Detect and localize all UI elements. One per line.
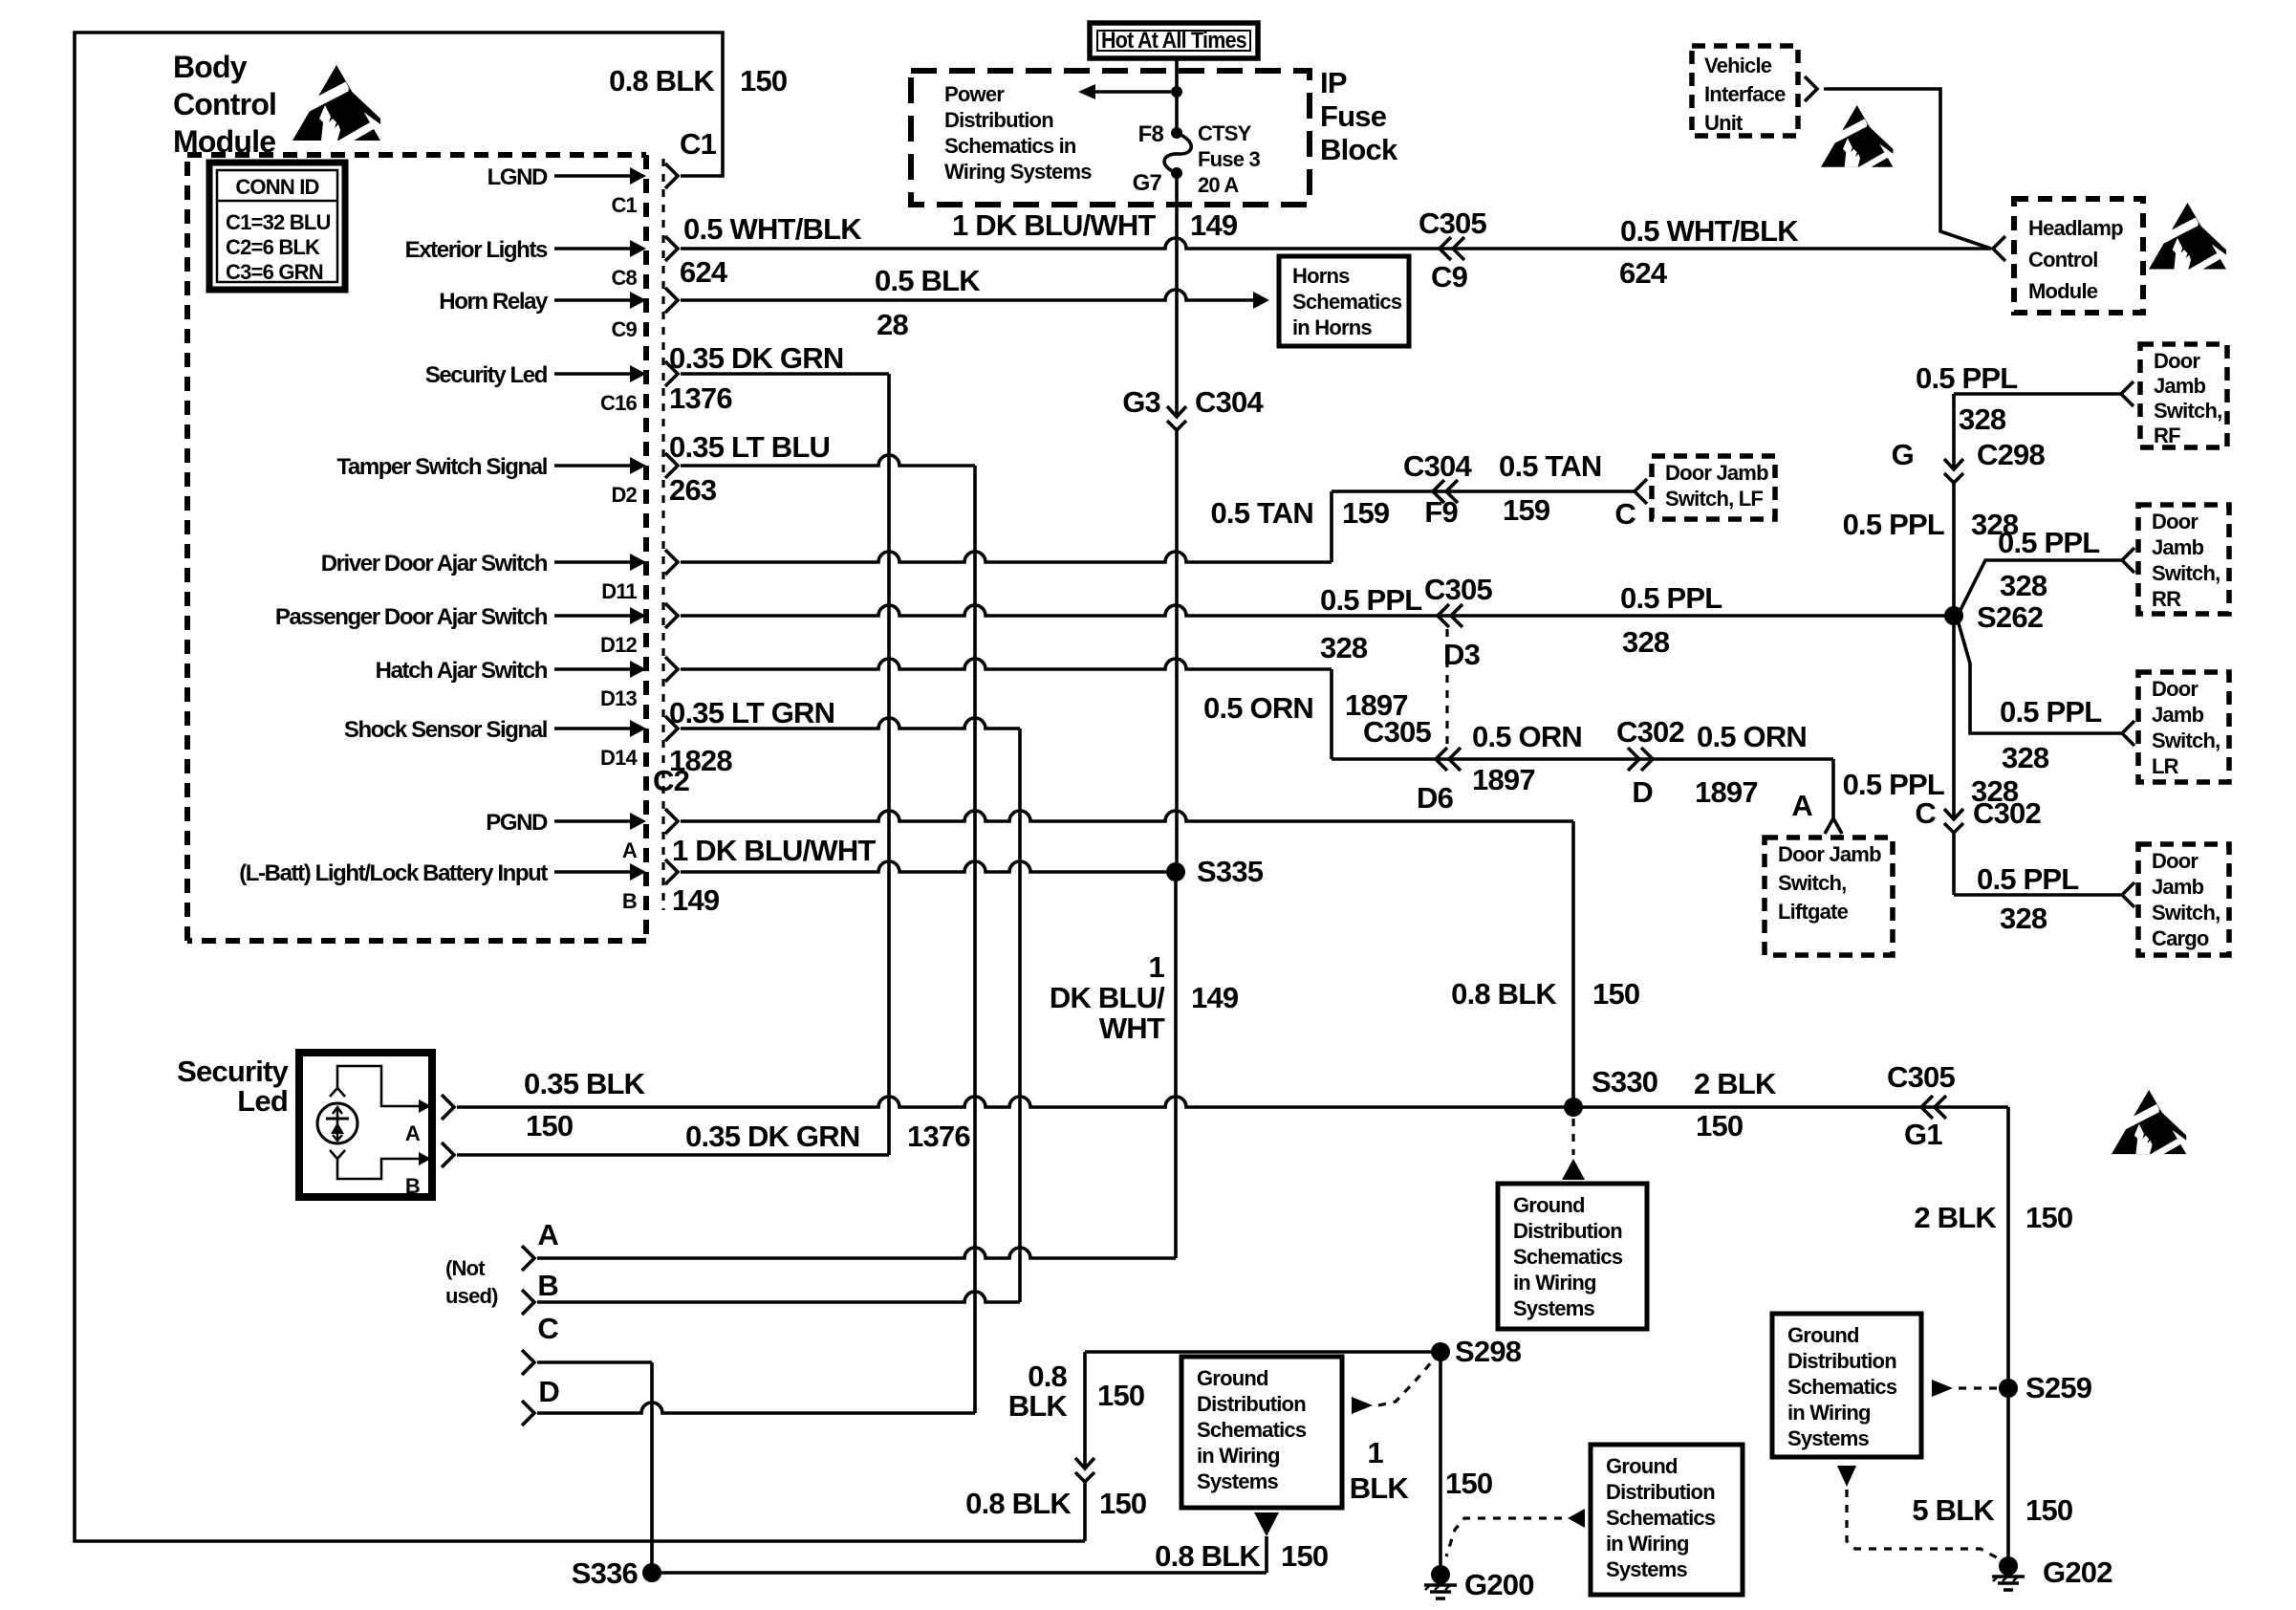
Ground Distribution box (S259)	[1772, 1314, 1921, 1457]
svg-text:2 BLK: 2 BLK	[1694, 1067, 1777, 1100]
ground G200	[1424, 1565, 1457, 1599]
svg-text:PGND: PGND	[486, 810, 548, 836]
svg-text:Shock Sensor Signal: Shock Sensor Signal	[344, 717, 547, 743]
svg-text:C1: C1	[611, 193, 637, 217]
svg-text:Power: Power	[944, 82, 1005, 106]
svg-text:Liftgate: Liftgate	[1778, 900, 1849, 924]
svg-text:C304: C304	[1195, 385, 1264, 419]
svg-text:20 A: 20 A	[1198, 173, 1239, 197]
svg-text:(L-Batt) Light/Lock Battery In: (L-Batt) Light/Lock Battery Input	[239, 860, 548, 886]
svg-text:Switch,: Switch,	[1778, 871, 1846, 895]
svg-text:DK BLU/: DK BLU/	[1050, 981, 1165, 1014]
svg-text:A: A	[622, 838, 638, 862]
IP Fuse Block dashed box	[911, 71, 1310, 205]
svg-text:Security Led: Security Led	[425, 362, 548, 388]
svg-text:Body: Body	[173, 50, 248, 84]
svg-text:0.35 LT GRN: 0.35 LT GRN	[669, 696, 834, 729]
svg-text:WHT: WHT	[1099, 1012, 1165, 1045]
svg-text:0.8 BLK: 0.8 BLK	[1155, 1539, 1261, 1573]
connector C305 D6	[1436, 748, 1447, 771]
connector C305 G1	[1921, 1096, 1933, 1119]
svg-text:Switch,: Switch,	[2152, 561, 2220, 585]
svg-text:BLK: BLK	[1350, 1471, 1410, 1505]
svg-text:Jamb: Jamb	[2154, 374, 2206, 398]
svg-text:0.5 PPL: 0.5 PPL	[1320, 583, 1421, 617]
svg-text:159: 159	[1503, 493, 1550, 527]
svg-text:C302: C302	[1973, 796, 2041, 830]
svg-text:B: B	[405, 1174, 420, 1198]
svg-text:C: C	[1614, 497, 1635, 531]
svg-text:G202: G202	[2043, 1556, 2112, 1589]
svg-text:1376: 1376	[669, 381, 732, 415]
svg-text:Security: Security	[177, 1055, 289, 1088]
Door Jamb Switch Cargo	[2138, 844, 2229, 955]
svg-text:Switch,: Switch,	[2154, 399, 2221, 423]
svg-text:Passenger Door Ajar Switch: Passenger Door Ajar Switch	[275, 604, 548, 630]
svg-text:Hot At All Times: Hot At All Times	[1101, 28, 1246, 54]
wire 0.5 TAN 159 Driver Door Ajar Switch to Door Jamb Switch LF	[681, 552, 1332, 562]
svg-text:S335: S335	[1197, 855, 1264, 888]
Headlamp Control Module	[2014, 199, 2143, 313]
svg-text:CONN ID: CONN ID	[235, 175, 318, 199]
splice S259	[1999, 1379, 2018, 1398]
wire 0.5 PPL 328 Passenger Door Ajar Switch to S262	[681, 605, 1947, 616]
svg-text:F9: F9	[1424, 495, 1458, 529]
LED symbol	[317, 1103, 357, 1143]
svg-text:D6: D6	[1417, 781, 1454, 815]
svg-text:D11: D11	[601, 579, 637, 603]
svg-text:Systems: Systems	[1513, 1296, 1594, 1320]
svg-text:C9: C9	[611, 317, 637, 341]
wire 1 DK BLU/WHT 149 Light/Lock Battery Input to S335	[681, 861, 1176, 872]
dashed arrow to S259	[1932, 1380, 1953, 1397]
svg-text:Switch,: Switch,	[2152, 901, 2220, 925]
svg-text:150: 150	[2025, 1201, 2072, 1234]
wire 0.35 BLK 150 Security Led A to S330	[442, 1095, 454, 1120]
Horns Schematics in Horns box	[1279, 256, 1409, 346]
svg-text:C2=6 BLK: C2=6 BLK	[226, 235, 320, 259]
svg-text:Unit: Unit	[1704, 111, 1744, 135]
ESD symbol at Vehicle Interface Unit	[1821, 105, 1896, 173]
svg-text:C: C	[537, 1312, 558, 1345]
svg-text:RF: RF	[2154, 424, 2180, 447]
svg-text:Door Jamb: Door Jamb	[1665, 461, 1768, 485]
svg-text:150: 150	[526, 1109, 573, 1142]
svg-text:624: 624	[680, 255, 728, 289]
svg-text:(Not: (Not	[445, 1256, 486, 1280]
wire 0.5 PPL 328 RR branch	[1960, 560, 2122, 610]
svg-text:S262: S262	[1977, 600, 2043, 634]
svg-text:C9: C9	[1431, 260, 1468, 294]
Ground Distribution box (S298/S336)	[1181, 1357, 1342, 1508]
svg-text:1: 1	[1368, 1436, 1384, 1469]
svg-text:159: 159	[1342, 496, 1390, 530]
LED internal wiring	[330, 1088, 345, 1097]
svg-text:0.5 WHT/BLK: 0.5 WHT/BLK	[683, 212, 862, 246]
svg-text:28: 28	[877, 308, 908, 341]
svg-text:0.35 LT BLU: 0.35 LT BLU	[669, 430, 830, 464]
svg-text:0.5 TAN: 0.5 TAN	[1210, 496, 1313, 530]
ESD symbol at BCM	[292, 65, 384, 147]
wire 0.35 DK GRN 1376 Security Led B	[442, 1142, 454, 1167]
wire 0.8 BLK 150 S336 to ground ref	[652, 1571, 1267, 1575]
wire 2 BLK 150 S330 to C305 G1	[1573, 1105, 2008, 1109]
svg-text:328: 328	[2002, 741, 2049, 774]
svg-text:D13: D13	[600, 686, 638, 710]
wire 0.5 ORN 1897 Hatch Ajar Switch to Door Jamb Switch Liftgate	[681, 659, 1332, 669]
svg-text:0.5 PPL: 0.5 PPL	[1977, 862, 2078, 896]
svg-text:Control: Control	[2028, 248, 2098, 272]
svg-text:RR: RR	[2152, 587, 2181, 611]
svg-text:Block: Block	[1320, 133, 1398, 166]
svg-text:C3=6 GRN: C3=6 GRN	[226, 260, 323, 284]
svg-text:0.5 ORN: 0.5 ORN	[1697, 720, 1807, 753]
svg-text:Horn Relay: Horn Relay	[439, 289, 549, 315]
Door Jamb Switch LF	[1652, 456, 1775, 519]
fuse CTSY Fuse 3 20 A	[1171, 127, 1182, 139]
svg-text:1376: 1376	[907, 1120, 970, 1153]
Security Led component	[299, 1053, 432, 1197]
svg-text:0.35 DK GRN: 0.35 DK GRN	[669, 341, 843, 375]
connector C C302 (in-line, pointing down)	[1944, 809, 1963, 819]
svg-text:G: G	[1892, 438, 1914, 471]
ESD symbol at Headlamp Control Module	[2149, 203, 2229, 275]
connector G C298 (in-line, pointing down)	[1944, 459, 1963, 469]
svg-text:Ground: Ground	[1787, 1323, 1859, 1347]
svg-text:B: B	[537, 1269, 558, 1302]
svg-text:S259: S259	[2025, 1371, 2092, 1404]
Door Jamb Switch RR	[2138, 505, 2229, 614]
svg-text:C298: C298	[1977, 438, 2045, 471]
svg-text:328: 328	[2000, 569, 2047, 602]
svg-text:Interface: Interface	[1704, 82, 1786, 106]
Door Jamb Switch RF	[2140, 344, 2227, 447]
svg-text:C305: C305	[1887, 1060, 1955, 1094]
svg-text:Jamb: Jamb	[2152, 535, 2204, 559]
wire 0.5 BLK 28 Horn Relay to Horns	[681, 290, 1253, 300]
svg-text:1897: 1897	[1695, 775, 1758, 809]
dashed arrow from S259 box to G202	[1837, 1466, 1856, 1487]
wire 1 BLK 150 S298 to G200	[1439, 1352, 1442, 1571]
wire 0.35 DK GRN 1376 from BCM Security Led pin	[681, 372, 889, 376]
svg-text:Door: Door	[2154, 349, 2200, 373]
svg-text:B: B	[622, 889, 637, 913]
CONN ID table	[209, 163, 345, 290]
svg-text:D3: D3	[1443, 638, 1481, 671]
Door Jamb Switch LR	[2138, 672, 2229, 782]
ground G202	[1992, 1556, 2025, 1590]
svg-text:328: 328	[2000, 902, 2047, 935]
svg-text:Distribution: Distribution	[944, 108, 1053, 132]
svg-text:Schematics: Schematics	[1513, 1245, 1623, 1269]
svg-text:Led: Led	[237, 1084, 288, 1118]
svg-text:C302: C302	[1616, 715, 1684, 749]
svg-text:C1=32 BLU: C1=32 BLU	[226, 210, 331, 234]
svg-text:Jamb: Jamb	[2152, 703, 2204, 727]
Ground Distribution box (S330)	[1498, 1184, 1647, 1329]
svg-text:CTSY: CTSY	[1198, 121, 1252, 145]
svg-text:Vehicle: Vehicle	[1704, 54, 1772, 77]
svg-text:149: 149	[672, 883, 720, 917]
svg-text:Module: Module	[173, 124, 275, 159]
svg-text:LGND: LGND	[487, 164, 548, 190]
svg-text:0.35 DK GRN: 0.35 DK GRN	[685, 1120, 859, 1153]
svg-text:Schematics: Schematics	[1606, 1506, 1716, 1530]
svg-text:Systems: Systems	[1197, 1469, 1278, 1493]
svg-text:A: A	[405, 1121, 421, 1145]
svg-text:C16: C16	[600, 391, 638, 415]
svg-text:Distribution: Distribution	[1513, 1219, 1622, 1243]
svg-text:0.8 BLK: 0.8 BLK	[1451, 977, 1557, 1011]
svg-text:G7: G7	[1133, 170, 1162, 196]
connector C304 F9	[1433, 480, 1444, 503]
svg-text:Ground: Ground	[1197, 1366, 1268, 1390]
svg-text:624: 624	[1619, 256, 1668, 290]
svg-text:Tamper Switch Signal: Tamper Switch Signal	[336, 454, 547, 480]
svg-text:C2: C2	[653, 764, 689, 797]
splice S298	[1431, 1342, 1450, 1361]
svg-text:149: 149	[1190, 208, 1238, 242]
svg-text:Schematics: Schematics	[1197, 1418, 1307, 1442]
svg-text:D14: D14	[600, 746, 639, 770]
svg-text:Ground: Ground	[1513, 1193, 1585, 1217]
svg-text:Switch, LF: Switch, LF	[1665, 487, 1763, 511]
svg-text:0.5 BLK: 0.5 BLK	[875, 264, 981, 297]
svg-text:Schematics: Schematics	[1292, 290, 1402, 314]
svg-text:150: 150	[1696, 1109, 1743, 1142]
svg-text:D: D	[1632, 775, 1653, 809]
ESD symbol right middle	[2112, 1090, 2190, 1160]
svg-text:149: 149	[1191, 981, 1239, 1014]
BCM connector dashed line	[661, 159, 664, 910]
svg-text:in Wiring: in Wiring	[1513, 1271, 1596, 1295]
svg-text:0.5 ORN: 0.5 ORN	[1203, 691, 1313, 725]
svg-text:D: D	[538, 1375, 559, 1408]
wire 0.8 BLK 150 PGND to S330	[681, 811, 1573, 821]
svg-text:Systems: Systems	[1606, 1557, 1687, 1581]
connector G1 C304 (in-line, pointing down)	[1075, 1458, 1094, 1469]
svg-text:Horns: Horns	[1292, 264, 1350, 288]
svg-text:Wiring Systems: Wiring Systems	[944, 160, 1092, 184]
svg-text:0.5 PPL: 0.5 PPL	[1843, 508, 1944, 541]
svg-text:Driver Door Ajar Switch: Driver Door Ajar Switch	[321, 551, 548, 577]
svg-text:Jamb: Jamb	[2152, 875, 2204, 899]
svg-text:C305: C305	[1419, 207, 1486, 240]
svg-text:Distribution: Distribution	[1787, 1349, 1896, 1373]
svg-text:G1: G1	[1904, 1118, 1942, 1151]
dashed arrow to S298	[1352, 1397, 1373, 1414]
svg-text:Fuse 3: Fuse 3	[1198, 147, 1260, 171]
wire 0.8 BLK 150 to S298	[1085, 1350, 1434, 1354]
dashed arrow to S330	[1571, 1119, 1574, 1155]
svg-text:Cargo: Cargo	[2152, 926, 2209, 950]
splice S335	[1166, 862, 1185, 881]
svg-text:S330: S330	[1592, 1065, 1657, 1099]
svg-text:150: 150	[1281, 1539, 1328, 1573]
Vehicle Interface Unit	[1692, 46, 1798, 136]
svg-text:0.5 TAN: 0.5 TAN	[1499, 449, 1602, 483]
svg-text:1897: 1897	[1472, 763, 1535, 796]
svg-text:F8: F8	[1138, 121, 1164, 147]
svg-text:in Horns: in Horns	[1292, 315, 1372, 339]
svg-text:0.5 PPL: 0.5 PPL	[1916, 361, 2017, 395]
svg-text:BLK: BLK	[1008, 1389, 1069, 1423]
svg-text:Switch,: Switch,	[2152, 729, 2220, 752]
svg-text:Door: Door	[2152, 849, 2199, 873]
wire 0.35 LT GRN 1828 Shock Sensor Signal	[681, 718, 1020, 729]
svg-text:328: 328	[1959, 402, 2006, 436]
svg-text:5 BLK: 5 BLK	[1912, 1493, 1995, 1527]
svg-text:150: 150	[1445, 1467, 1492, 1500]
svg-text:0.8 BLK: 0.8 BLK	[965, 1487, 1072, 1520]
svg-text:C1: C1	[680, 127, 717, 161]
Ground Distribution box (G200)	[1591, 1445, 1743, 1595]
svg-text:Systems: Systems	[1787, 1426, 1869, 1450]
svg-text:2 BLK: 2 BLK	[1914, 1201, 1997, 1234]
svg-text:Door: Door	[2152, 677, 2199, 701]
svg-text:150: 150	[1097, 1379, 1144, 1412]
connector C305 D3	[1438, 604, 1449, 627]
svg-text:C305: C305	[1363, 715, 1431, 749]
Hot At All Times box	[1090, 23, 1258, 58]
svg-text:C8: C8	[611, 266, 637, 290]
wire 0.5 WHT/BLK 624 Exterior Lights to Headlamp Control Module	[681, 238, 1991, 249]
svg-text:0.5 WHT/BLK: 0.5 WHT/BLK	[1620, 214, 1799, 248]
wire 0.5 PPL 328 down to C302	[1952, 616, 1956, 819]
svg-text:A: A	[1791, 789, 1812, 822]
svg-text:Door: Door	[2152, 510, 2199, 533]
svg-text:Headlamp: Headlamp	[2028, 216, 2123, 240]
svg-text:Control: Control	[173, 87, 276, 121]
svg-text:IP: IP	[1320, 66, 1347, 99]
wire 0.5 PPL 328 RF branch	[1954, 392, 2121, 396]
svg-text:G3: G3	[1122, 385, 1160, 419]
svg-text:used): used)	[445, 1284, 498, 1308]
svg-text:A: A	[537, 1218, 558, 1251]
splice S336	[642, 1563, 661, 1582]
svg-text:263: 263	[669, 473, 717, 507]
svg-text:Schematics in: Schematics in	[944, 134, 1076, 158]
svg-text:C305: C305	[1424, 573, 1492, 606]
svg-text:150: 150	[1099, 1487, 1146, 1520]
svg-text:0.35 BLK: 0.35 BLK	[524, 1067, 646, 1100]
connector C305 C9	[1440, 237, 1451, 260]
svg-text:0.5 PPL: 0.5 PPL	[1620, 581, 1722, 615]
connector C302 D	[1628, 748, 1639, 771]
svg-text:0.5 PPL: 0.5 PPL	[2000, 695, 2101, 729]
svg-text:328: 328	[1622, 625, 1670, 659]
svg-text:G200: G200	[1464, 1568, 1534, 1601]
svg-text:1: 1	[1149, 950, 1165, 984]
svg-text:Ground: Ground	[1606, 1454, 1678, 1478]
svg-text:Door Jamb: Door Jamb	[1778, 842, 1881, 866]
svg-text:Schematics: Schematics	[1787, 1375, 1897, 1399]
svg-text:0.8 BLK: 0.8 BLK	[609, 64, 715, 98]
wire 0.35 LT BLU 263 Tamper Switch Signal	[681, 455, 975, 466]
svg-text:C: C	[1915, 796, 1936, 830]
svg-text:150: 150	[2025, 1493, 2072, 1527]
svg-text:LR: LR	[2152, 754, 2179, 778]
svg-text:0.5 ORN: 0.5 ORN	[1472, 720, 1582, 753]
svg-text:328: 328	[1320, 631, 1368, 664]
svg-text:Fuse: Fuse	[1320, 99, 1387, 133]
svg-text:Distribution: Distribution	[1606, 1480, 1715, 1504]
svg-text:D2: D2	[611, 483, 637, 507]
svg-text:Exterior Lights: Exterior Lights	[405, 237, 548, 263]
wire 0.5 PPL 328 LR branch	[1959, 623, 2122, 733]
svg-text:in Wiring: in Wiring	[1606, 1532, 1689, 1556]
connector G3 C304 (in-line, pointing down)	[1167, 406, 1186, 417]
svg-text:1 DK BLU/WHT: 1 DK BLU/WHT	[952, 208, 1156, 242]
svg-text:S298: S298	[1455, 1335, 1522, 1368]
svg-text:0.5 PPL: 0.5 PPL	[1998, 526, 2099, 559]
svg-text:D12: D12	[600, 633, 638, 657]
svg-text:Module: Module	[2028, 279, 2098, 303]
splice S262	[1944, 606, 1963, 625]
svg-text:in Wiring: in Wiring	[1787, 1401, 1871, 1425]
svg-text:in Wiring: in Wiring	[1197, 1444, 1280, 1468]
wire 1 DK BLU/WHT 149 main vertical from fuse	[1175, 58, 1179, 133]
arrow to power distribution	[1095, 90, 1177, 94]
svg-text:C304: C304	[1403, 449, 1472, 483]
Body Control Module dashed box	[187, 155, 646, 941]
svg-text:0.8: 0.8	[1028, 1360, 1067, 1393]
svg-text:Distribution: Distribution	[1197, 1392, 1306, 1416]
splice S330	[1564, 1098, 1583, 1117]
wire 0.5 PPL 328 Cargo branch	[1952, 833, 1956, 895]
svg-text:S336: S336	[572, 1556, 639, 1590]
junction dot at fuse feed	[1171, 86, 1182, 98]
wire from Vehicle Interface Unit	[1824, 89, 1991, 249]
svg-text:150: 150	[740, 64, 787, 98]
svg-text:Hatch Ajar Switch: Hatch Ajar Switch	[376, 658, 548, 684]
dashed arrow to G200	[1568, 1509, 1585, 1528]
svg-text:1 DK BLU/WHT: 1 DK BLU/WHT	[672, 834, 876, 867]
dashed connector line C305 D3	[1445, 629, 1448, 748]
svg-text:150: 150	[1592, 977, 1639, 1011]
Door Jamb Switch Liftgate	[1765, 838, 1893, 955]
